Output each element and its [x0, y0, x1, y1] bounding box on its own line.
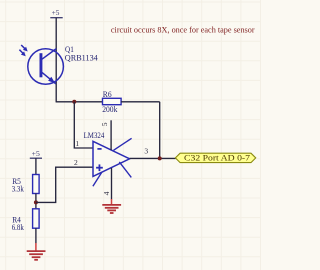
junction node output — [158, 156, 162, 160]
svg-text:3.3k: 3.3k — [12, 185, 25, 194]
wire R4 to ground — [35, 228, 37, 243]
svg-text:+5: +5 — [32, 149, 40, 158]
resistor R6 — [103, 98, 122, 104]
wire output pin 3 — [130, 157, 176, 159]
wire +5 to R5 — [35, 158, 37, 174]
wire R6 right — [121, 101, 160, 103]
svg-text:200k: 200k — [102, 105, 118, 114]
wire feedback right vertical — [159, 102, 161, 159]
port C32 Port AD 0-7 — [175, 153, 255, 163]
wire divider tap to pin 2 — [36, 167, 93, 202]
svg-text:circuit occurs 8X, once for ea: circuit occurs 8X, once for each tape se… — [111, 26, 255, 35]
wire collector supply vertical — [55, 18, 57, 102]
resistor R5 — [33, 175, 40, 194]
wire R5 to R4 — [35, 194, 37, 209]
transistor Q1 (phototransistor QRB1134) — [28, 49, 64, 85]
light arrows (photo input) — [19, 45, 27, 56]
svg-text:QRB1134: QRB1134 — [65, 53, 99, 62]
svg-text:C32 Port AD 0-7: C32 Port AD 0-7 — [184, 154, 250, 163]
power +5 (left, divider supply) — [30, 149, 42, 158]
wire emitter to R6 row — [56, 101, 103, 103]
junction node (emitter / R6 / pin1) — [72, 100, 76, 104]
ground (op-amp pin 4) — [102, 199, 121, 213]
pin 5 stub — [110, 120, 112, 150]
svg-text:1: 1 — [75, 139, 79, 148]
junction node divider tap — [34, 200, 38, 204]
svg-text:4: 4 — [102, 191, 111, 195]
svg-text:+5: +5 — [52, 8, 60, 17]
pin 4 stub — [111, 168, 113, 200]
op-amp U? LM324 — [93, 138, 132, 186]
power +5 (top, collector supply) — [50, 8, 62, 18]
svg-text:R6: R6 — [103, 90, 112, 99]
resistor R4 — [33, 209, 40, 228]
wire feedback to pin 1 — [74, 102, 93, 148]
svg-text:5: 5 — [100, 122, 109, 126]
ground (divider) — [27, 243, 46, 260]
svg-text:6.8k: 6.8k — [12, 223, 25, 232]
svg-text:LM324: LM324 — [84, 131, 105, 140]
svg-text:2: 2 — [74, 158, 78, 167]
svg-text:3: 3 — [144, 147, 148, 156]
